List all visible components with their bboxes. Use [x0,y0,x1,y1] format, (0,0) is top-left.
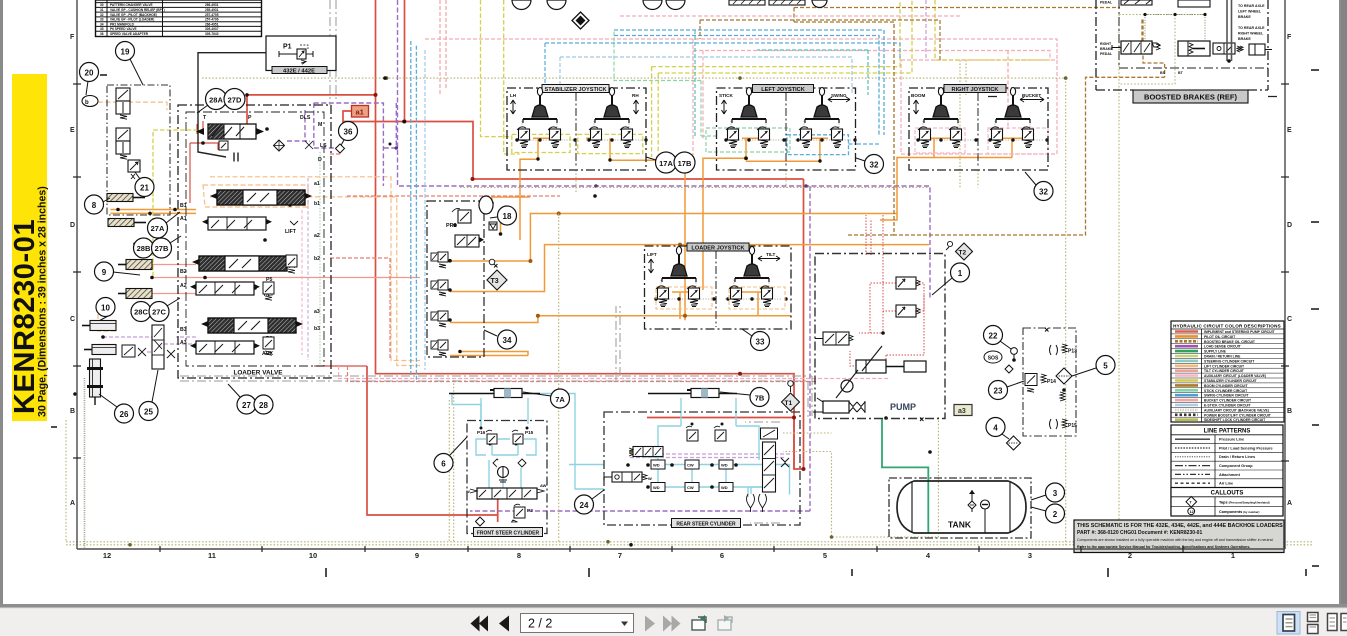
node: check diamonds [493,459,526,467]
svg-text:a1: a1 [314,181,320,187]
valve: prv stick back [757,127,770,148]
node: left joystick group [717,85,856,171]
joystick LH [523,88,557,124]
svg-text:21: 21 [140,184,149,193]
wire: stick cylinder circuit (light green dashed) [614,30,790,152]
wire: loader joystick light orange loops [656,287,785,309]
callout circle 32 right [1025,172,1053,201]
svg-text:Pressure Line: Pressure Line [1219,438,1244,442]
node: previous-page button [499,616,509,632]
svg-text:DRAIN / RETURN LINE: DRAIN / RETURN LINE [1204,355,1241,359]
svg-text:E-STICK CYLINDER CIRCUIT: E-STICK CYLINDER CIRCUIT [1204,404,1251,408]
svg-text:W: W [466,489,470,494]
svg-text:P: P [248,115,252,121]
svg-text:STICK CYLINDER CIRCUIT: STICK CYLINDER CIRCUIT [1204,389,1248,393]
svg-text:VALVE GP - PILOT (BACKHOE): VALVE GP - PILOT (BACKHOE) [110,13,157,17]
svg-text:17A: 17A [659,159,673,168]
valve: P5 reducing valve [263,282,274,300]
svg-text:WD: WD [653,463,660,468]
svg-text:LIFT: LIFT [285,229,297,235]
wire: pilot oil circuit (orange) [110,138,1028,355]
valve: load sense spool [815,332,853,345]
svg-text:BS: BS [1160,71,1166,75]
svg-text:THIS SCHEMATIC IS FOR THE 432E: THIS SCHEMATIC IS FOR THE 432E, 434E, 44… [1077,523,1283,529]
svg-text:BOOM CYLINDER CIRCUIT: BOOM CYLINDER CIRCUIT [1204,384,1248,388]
wire: joystick internal dotted links [517,121,1043,299]
node: brake line spring [1237,46,1243,52]
svg-text:11: 11 [208,551,216,560]
svg-text:32: 32 [100,13,104,17]
callout circle 7B [720,388,769,407]
svg-text:257-4796: 257-4796 [205,18,219,22]
svg-text:27B: 27B [155,244,169,253]
svg-text:33: 33 [756,338,765,347]
svg-text:28A: 28A [209,96,223,105]
valve: P4 relief valve [286,255,297,273]
node: right joystick group [909,85,1048,171]
node: first-page button [471,616,489,632]
toolbar layer [0,604,1347,636]
node: stabilizer select valve group (items 19/20) [107,85,170,215]
svg-text:B: B [70,408,75,415]
node: loader lift cylinders (item 10) [82,321,116,355]
svg-text:P6 SPEED VALVE: P6 SPEED VALVE [110,27,137,31]
valve: P6 reducing valve [263,337,274,355]
svg-text:D: D [70,222,75,229]
svg-text:TO REAR AXLE: TO REAR AXLE [1238,4,1265,8]
valve: prv bucket open [990,127,1003,148]
valve: prv stick fwd [726,127,739,148]
svg-text:Taps (Pressure/Sampling/Unrela: Taps (Pressure/Sampling/Unrelated) [1219,500,1270,504]
svg-text:BOOM: BOOM [911,93,925,98]
svg-text:RIGHT WHEEL: RIGHT WHEEL [1238,32,1264,36]
svg-text:PILOT OIL CIRCUIT: PILOT OIL CIRCUIT [1204,335,1236,339]
node: callouts section [1171,488,1283,517]
node: selector springs [747,494,767,512]
valve: lift pilot spool [202,217,298,230]
svg-text:T2: T2 [959,250,967,257]
valve: pilot shutoff solenoid 1 [431,252,448,268]
valve: pump compensator 1 [896,277,920,289]
svg-text:Components are shown installed: Components are shown installed on a full… [1077,538,1274,542]
svg-text:30: 30 [100,3,104,7]
callout circles 17A 17B [646,152,695,173]
wire: drawing frame bottom border [77,548,1285,550]
svg-text:257-4795: 257-4795 [205,13,219,17]
callout circle 7A [523,389,570,408]
node: page fold tick marks below frame [326,568,1306,577]
svg-text:28B: 28B [137,244,151,253]
node: ride control valve (item 25) [122,325,175,369]
svg-text:32: 32 [870,161,879,170]
node: frame column numbers bottom [103,551,1235,560]
callout circle 10 [96,298,115,323]
node: WD orifice row 2 [651,483,733,492]
joystick boom [924,88,958,124]
node: top cut-off label boxes [729,0,805,5]
svg-text:2 / 2: 2 / 2 [528,617,552,631]
svg-text:F: F [1287,34,1292,41]
valve: prv RH up [620,127,633,148]
callout circle 21 [135,172,154,197]
callout circle 13 [496,280,498,282]
svg-text:6: 6 [441,460,446,469]
node: purple junction dots [395,146,808,188]
svg-text:305-7640: 305-7640 [205,32,219,36]
svg-text:TO REAR AXLE: TO REAR AXLE [1238,26,1265,30]
svg-text:REAR STEER CYLINDER: REAR STEER CYLINDER [676,522,736,528]
valve: pilot shutoff solenoid 4 [431,340,448,356]
node: brake booster cylinder top (cut) [1178,0,1210,7]
valve: prv LH up [548,127,561,148]
node: slave cylinder [1249,44,1272,55]
callout circle 3 [1031,483,1065,502]
node: frame column ticks on bottom border [160,546,1183,552]
callout circle 27A [148,212,181,238]
svg-text:LEFT WHEEL: LEFT WHEEL [1238,10,1262,14]
svg-text:12: 12 [1190,510,1194,514]
valve: wheel brake shuttle [1213,43,1235,54]
node: color swatches [1175,332,1198,420]
svg-text:8: 8 [92,201,97,210]
svg-text:BOOSTED BRAKES (REF): BOOSTED BRAKES (REF) [1144,93,1237,102]
node: return filter group (items 22/23/4/5) [1023,328,1077,436]
svg-text:a2: a2 [314,233,320,239]
svg-text:AW: AW [540,483,547,488]
svg-text:CW: CW [687,463,694,468]
node: diamond tap near 36 [336,144,345,153]
svg-text:Attachment: Attachment [1219,473,1241,477]
wire: pump red dotted internals [850,215,924,366]
node: last-page button (disabled) [663,616,681,632]
svg-text:23: 23 [994,387,1003,396]
svg-text:C: C [1287,316,1292,323]
node: servo piston [856,346,926,373]
svg-text:18: 18 [503,212,512,221]
svg-text:BUCKET CYLINDER CIRCUIT: BUCKET CYLINDER CIRCUIT [1204,399,1252,403]
svg-text:PATTERN CHANGER VALVE: PATTERN CHANGER VALVE [110,3,153,7]
svg-text:2: 2 [1053,510,1058,519]
callout circle 20 [80,63,99,96]
callout circle 24 [575,490,605,514]
svg-text:WD: WD [721,485,728,490]
svg-text:20: 20 [85,69,94,78]
node: filter spring [1060,392,1065,401]
node: yellow document label banner [9,74,49,421]
svg-text:34: 34 [100,22,104,26]
node: parts list table [96,0,262,37]
node: orange junction dots [528,156,748,318]
node: a1 net box [352,106,369,118]
node: frame row letters right [1287,34,1292,507]
node: P13 check spring [1050,344,1078,355]
node: front steer cylinder symbol (7A) [449,389,540,398]
svg-text:Component Group: Component Group [1219,464,1253,468]
svg-text:WD: WD [653,485,660,490]
svg-text:HYDRAULIC CIRCUIT COLOR DESCRI: HYDRAULIC CIRCUIT COLOR DESCRIPTIONS [1173,324,1281,329]
svg-text:A2: A2 [180,283,187,289]
callout circle 23 [989,381,1025,400]
node: b oval tap [82,96,98,107]
node: front steer cylinder group [466,421,547,537]
svg-text:2: 2 [1128,551,1132,560]
svg-text:TILT: TILT [766,252,776,257]
node: margin dash marks [51,70,1319,566]
svg-text:TANK: TANK [948,520,972,530]
svg-text:LH: LH [510,93,517,98]
node: brake booster cylinder bottom [1178,41,1210,56]
svg-text:SWING: SWING [831,93,847,98]
wire: steering cylinder circuit (light blue) [452,394,790,498]
callout circle 33 [742,329,770,351]
node: boosted brakes group [988,0,1280,103]
svg-text:3: 3 [1028,551,1032,560]
svg-text:305-4937: 305-4937 [205,27,219,31]
svg-text:AUXILIARY CIRCUIT (LOADER VALV: AUXILIARY CIRCUIT (LOADER VALVE) [1204,374,1266,378]
node: facing-pages-view button [1328,614,1347,631]
svg-text:10: 10 [309,551,317,560]
banner layer [9,74,49,421]
svg-text:7A: 7A [555,395,565,404]
wire: bucket circuit (pink) [440,0,1008,129]
wire: swing circuit (blue dashed) [411,30,884,380]
valve: pilot solenoid valve [455,235,484,247]
svg-text:SPEED VALVE ADAPTER: SPEED VALVE ADAPTER [110,32,149,36]
valve: rear steer spool lower [604,472,652,482]
svg-text:LIFT CYLINDER CIRCUIT: LIFT CYLINDER CIRCUIT [1204,364,1245,368]
svg-text:A1: A1 [180,216,187,222]
node: scattered junction dots [73,76,1066,546]
svg-text:Components (by number): Components (by number) [1219,510,1259,514]
valve: rear relief B [714,426,726,441]
svg-text:b1: b1 [314,201,320,207]
valve: prv LH down [517,127,530,148]
svg-text:PR1 MANIFOLD: PR1 MANIFOLD [110,22,135,26]
node: pump group [813,254,945,422]
svg-text:P15: P15 [525,430,534,435]
callout circle 18 [490,206,517,225]
node: stabilizer cylinder RH (item 9) [118,260,152,299]
wire: drain return dotted (olive) long runs [66,15,1313,546]
svg-text:P15: P15 [1068,423,1077,429]
wire: drawing frame left border [76,0,78,549]
valve: P16 relief [486,430,497,444]
svg-text:4: 4 [993,424,998,433]
wire: stabilizer circuit (yellow dashed) [153,0,1050,278]
svg-text:27D: 27D [228,96,242,105]
node: tank sight gauge [981,500,990,533]
svg-text:RH: RH [632,93,639,98]
svg-text:E: E [1287,127,1292,134]
svg-text:VALVE GP - PILOT (LOADER): VALVE GP - PILOT (LOADER) [110,18,154,22]
svg-text:F: F [70,34,75,41]
svg-text:6: 6 [720,551,724,560]
svg-text:TILT CYLINDER CIRCUIT: TILT CYLINDER CIRCUIT [1204,369,1245,373]
svg-text:30 Page, (Dimensions : 39 inch: 30 Page, (Dimensions : 39 inches x 28 in… [37,186,49,417]
wires layer [66,0,1313,547]
valve: pump compensator 2 [896,305,920,317]
node: next-page button (disabled) [645,616,655,632]
svg-text:SIDESHIFT LOCK CYLINDER CIRCUI: SIDESHIFT LOCK CYLINDER CIRCUIT [1204,418,1266,422]
wire: tilt cylinder circuit (salmon) [152,265,420,294]
svg-text:T1: T1 [785,400,793,407]
node: tank breather [968,490,976,512]
svg-text:Pilot / Load Sensing Pressure: Pilot / Load Sensing Pressure [1219,446,1273,450]
svg-text:9: 9 [415,551,419,560]
node: next-view button (disabled) [718,615,732,630]
valve: steering control spool [466,483,547,499]
callout circle 2 [1031,504,1065,523]
svg-text:5: 5 [1103,362,1108,371]
node: olive junction dots [128,76,1067,546]
node: bias spring cylinder [813,398,865,413]
node: previous-view button [692,615,706,630]
node: stabilizer cylinder LH (item 8) [107,194,146,227]
callout circle 1 [932,263,970,295]
node: single-page-view button (selected) [1277,612,1300,635]
valve: prv boom down [949,127,962,148]
valve: pilot shutoff solenoid 3 [431,311,448,327]
svg-text:B3: B3 [180,327,187,333]
joystick lift [662,247,696,283]
valve: PR1 reducing valve [446,208,471,229]
svg-text:P16: P16 [477,430,486,435]
node: a3 net box [954,405,972,416]
node: loader joystick group [645,243,792,329]
callout circle 4 [986,418,1009,440]
svg-text:T3: T3 [491,278,499,285]
svg-text:34: 34 [503,336,512,345]
svg-text:FRONT STEER CYLINDER: FRONT STEER CYLINDER [477,531,540,537]
valve: prv RH down [589,127,602,148]
callout circle 36 [339,122,358,148]
node: breather (22 target) [1011,348,1018,360]
wire: backhoe area dash-dot group borders (gray) [180,0,812,523]
valve: prv lift raise [656,286,669,307]
wire: right joystick prv loops (pink dashed) [915,128,1048,154]
joystick stick [732,88,766,124]
valve: P15 relief [512,430,523,444]
svg-text:27C: 27C [152,308,166,317]
svg-text:19: 19 [121,48,130,57]
node: orifice circle [497,458,510,482]
callout circle 22 [984,326,1012,350]
svg-text:BRAKE: BRAKE [1238,37,1251,41]
svg-text:STICK: STICK [719,93,733,98]
wire: auxiliary loader circuit (pink dashed) [339,39,1057,379]
node: T1 tap diamond [782,381,800,411]
node: red junction dots [374,93,806,471]
svg-text:7B: 7B [755,394,765,403]
svg-text:7: 7 [618,551,622,560]
svg-text:M: M [318,122,322,128]
wire: loader valve right edge drain lines [302,152,320,365]
svg-text:STABILIZER CYLINDER CIRCUIT: STABILIZER CYLINDER CIRCUIT [1204,379,1258,383]
valve: prv tilt back [729,286,742,307]
valve: tilt pilot spool [190,282,260,295]
node: pump swashplate circle [836,370,858,398]
svg-text:3: 3 [1053,489,1058,498]
svg-text:SOS: SOS [988,356,999,362]
wire: implement/steering pump pressure (red) [247,0,804,522]
svg-text:A3: A3 [180,340,187,346]
valve: P3 relief [512,504,534,522]
svg-text:33: 33 [100,18,104,22]
svg-text:RIGHT JOYSTICK: RIGHT JOYSTICK [952,87,999,93]
svg-text:32: 32 [1039,188,1048,197]
svg-text:266-4951: 266-4951 [205,22,219,26]
svg-text:BOOSTED BRAKE OIL CIRCUIT: BOOSTED BRAKE OIL CIRCUIT [1204,340,1256,344]
node: WD orifice row 1 [651,460,733,469]
svg-text:VALVE GP - CUSHION RELIEF (BPT: VALVE GP - CUSHION RELIEF (BPT) [110,8,165,12]
valve: tilt spool section [192,256,294,271]
node: P1 pressure tap box 432E/442E [266,36,336,74]
node: loader control valve group box [178,105,331,378]
svg-text:PUMP: PUMP [890,402,916,412]
svg-text:LOAD SENSE CIRCUIT: LOAD SENSE CIRCUIT [1204,345,1242,349]
node: SOS oval tap [984,351,1013,373]
callout circles 28C 27C [131,298,180,322]
callout circles 27 28 [228,384,273,414]
node: line pattern labels [1219,438,1273,486]
svg-text:17B: 17B [678,159,692,168]
svg-text:B: B [1287,408,1292,415]
joystick bucket [996,88,1030,124]
svg-text:28C: 28C [134,308,148,317]
valve: prv swing r [830,127,843,148]
callout circle 8 [85,195,111,214]
valve: loader inlet section [196,124,313,151]
callout circle 34 [484,330,517,349]
svg-text:BRAKE: BRAKE [1238,15,1251,19]
node: pattern changer valve (item 21) [128,160,140,179]
wire: drawing frame right border [1284,0,1286,549]
svg-text:B1: B1 [180,203,187,209]
svg-text:POWER BOOST/LIFT CYLINDER CIRC: POWER BOOST/LIFT CYLINDER CIRCUIT [1204,413,1272,417]
wire: lift cylinder circuit (light orange dashed) [98,102,420,365]
svg-text:PEDAL: PEDAL [1100,1,1113,5]
svg-text:PR1: PR1 [446,223,457,229]
node: hydraulic circuit color descriptions table [1171,321,1284,422]
valve: prv swing l [799,127,812,148]
svg-text:D: D [1287,222,1292,229]
svg-text:SUPPLY LINE: SUPPLY LINE [1204,350,1227,354]
svg-text:P1: P1 [283,44,292,51]
valve: rear steer spool upper [629,447,663,457]
svg-text:STABILIZER JOYSTICK: STABILIZER JOYSTICK [544,87,606,93]
svg-text:LS: LS [320,143,327,149]
valve: aux spool section [201,318,303,333]
svg-text:12: 12 [103,551,111,560]
node: return filter diamond [1056,368,1072,384]
wire: brake pedal dotted links [1145,15,1205,41]
node: suction strainer diamond (4 target) [1007,436,1021,450]
svg-text:RIGHT: RIGHT [1100,42,1112,46]
svg-text:b: b [85,100,89,106]
svg-text:a1: a1 [356,108,364,117]
svg-text:CALLOUTS: CALLOUTS [1211,491,1244,497]
svg-text:A: A [70,500,75,507]
node: page number dropdown [521,614,634,633]
wire: boosted brake circuit (brown dashed) [794,8,1165,236]
callout circle 25 [139,370,158,421]
wire: lead brake circuit (violet dashed) [103,0,926,458]
svg-text:LEFT JOYSTICK: LEFT JOYSTICK [761,87,805,93]
svg-text:10: 10 [101,304,110,313]
node: joystick port junction dots [515,138,1048,300]
valve: rear axle selector stack [761,428,790,492]
node: pilot manifold group (item 34) [427,196,497,357]
